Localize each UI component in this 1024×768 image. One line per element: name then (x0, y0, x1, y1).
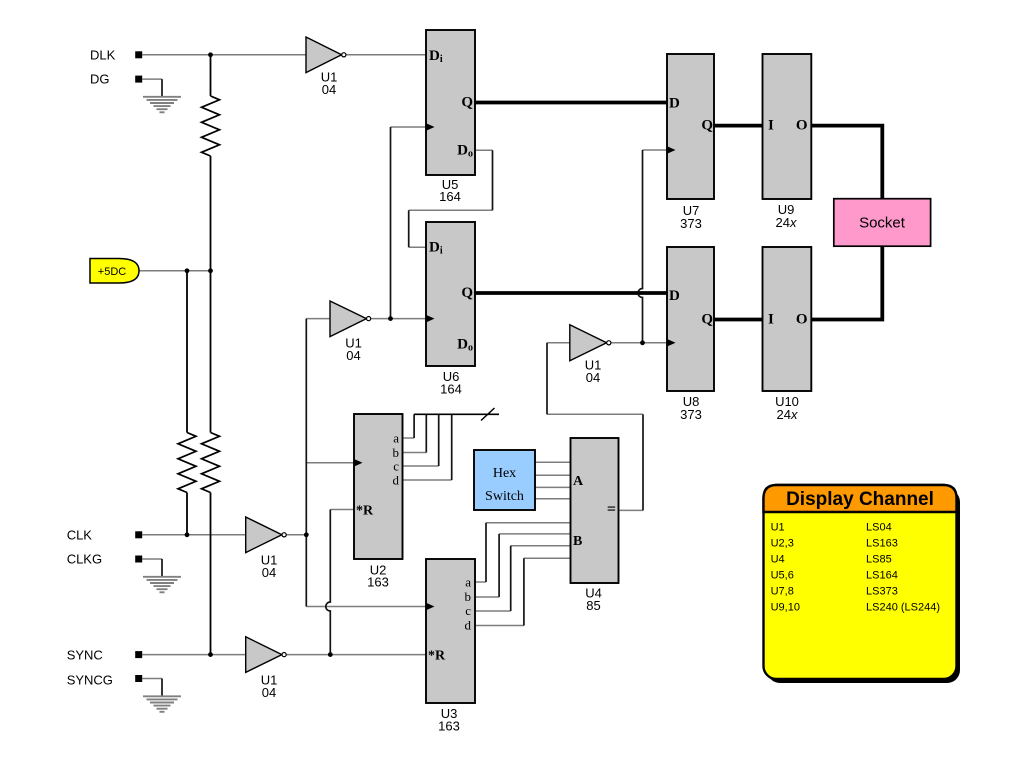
svg-text:163: 163 (367, 575, 389, 590)
wire eq net top (547, 413, 643, 415)
svg-text:I: I (768, 312, 774, 328)
wire U3 clock run (306, 606, 426, 608)
pin DLK (135, 51, 142, 58)
svg-text:24x: 24x (776, 215, 797, 230)
wire inv4 out (287, 534, 307, 536)
pin SYNCG (135, 675, 142, 682)
wire DG ground drop (161, 79, 163, 96)
wire U4 B3 run (511, 545, 571, 547)
wire U4 B3 riser (510, 546, 512, 611)
svg-text:b: b (465, 589, 472, 604)
wire U5 Q to U7 D (475, 101, 667, 105)
svg-text:Display Channel: Display Channel (786, 489, 934, 510)
node +5DC a (185, 268, 190, 273)
svg-text:Socket: Socket (859, 215, 906, 232)
svg-text:164: 164 (440, 382, 462, 397)
svg-text:U2,3: U2,3 (771, 538, 794, 550)
clock arrow of U2 (354, 459, 363, 467)
wire U2 d riser (451, 414, 453, 480)
wire U2 R stub (330, 509, 354, 511)
wire U2 c stub (403, 465, 439, 467)
node SYNC/U2R (328, 652, 333, 657)
svg-text:U5,6: U5,6 (771, 570, 794, 582)
svg-text:373: 373 (680, 407, 702, 422)
clock arrow of U6 (426, 315, 435, 323)
wire U6 Di stub (409, 246, 426, 248)
wire +5DC (139, 270, 211, 272)
svg-text:d: d (393, 473, 400, 488)
wire U7 Q to U9 I (714, 124, 763, 128)
wire feedback right drop (492, 150, 494, 210)
svg-text:LS163: LS163 (866, 538, 898, 550)
wire U9 O to socket (811, 126, 882, 199)
resistor R1 (202, 96, 220, 156)
svg-text:Q: Q (701, 312, 713, 328)
ground SYNCG (143, 696, 181, 712)
svg-text:O: O (796, 118, 808, 134)
inverter U1 gate E (246, 637, 287, 700)
wire SYNCG stub (142, 678, 162, 680)
wire U2 clock branch (306, 462, 354, 464)
svg-text:04: 04 (322, 82, 336, 97)
IC U10 (763, 247, 812, 422)
wire U2 b riser (425, 414, 427, 452)
svg-text:U1: U1 (771, 522, 785, 534)
svg-text:LS164: LS164 (866, 570, 898, 582)
IC U5 (426, 30, 476, 204)
svg-text:B: B (573, 534, 582, 549)
clock arrow of U5 (426, 123, 435, 131)
svg-text:*R: *R (356, 504, 374, 519)
clock arrow of U3 (426, 603, 435, 611)
wire inv3 in stub (547, 342, 570, 344)
svg-text:LS85: LS85 (866, 554, 892, 566)
pin SYNC (135, 651, 142, 658)
svg-text:04: 04 (346, 348, 360, 363)
svg-text:c: c (465, 603, 471, 618)
svg-text:U7,8: U7,8 (771, 586, 794, 598)
svg-text:I: I (768, 118, 774, 134)
wire U4 B1 riser (485, 523, 487, 582)
wire U4 B2 riser (498, 534, 500, 597)
svg-text:DLK: DLK (90, 48, 116, 63)
wire U5 Do stub (475, 149, 493, 151)
wire CLK to inverter (142, 534, 246, 536)
svg-text:04: 04 (262, 685, 276, 700)
wire CLKG ground drop (161, 559, 163, 577)
wire inv1 out to U5 Di (346, 54, 426, 56)
svg-text:85: 85 (586, 598, 600, 613)
wire bus line (414, 413, 499, 415)
inverter U1 gate D (246, 517, 287, 580)
wire socket to U10 O (811, 246, 882, 319)
svg-text:SYNCG: SYNCG (67, 673, 113, 688)
inverter U1 gate C (570, 325, 611, 385)
ground DG (143, 97, 181, 113)
clock arrow of U7 (667, 146, 676, 154)
svg-text:Q: Q (701, 118, 713, 134)
wire SYNC to inverter (142, 654, 246, 656)
svg-text:LS04: LS04 (866, 522, 892, 534)
wire U5 clock riser (390, 127, 392, 319)
wire U2 b stub (403, 452, 427, 454)
node U8 clock (640, 340, 645, 345)
ground CLKG (143, 577, 181, 593)
inverter U1 gate B (330, 301, 371, 363)
svg-text:U4: U4 (771, 554, 785, 566)
pin CLK (135, 531, 142, 538)
svg-text:Q: Q (461, 95, 473, 111)
resistor R3 (202, 433, 220, 493)
wire U7 clock stub (643, 149, 668, 151)
wire DLK to inverter (142, 54, 306, 56)
svg-text:163: 163 (438, 719, 460, 734)
svg-text:04: 04 (586, 370, 600, 385)
wire inv5 out to U3 R (287, 654, 427, 656)
IC U6 (426, 222, 476, 397)
svg-text:DG: DG (90, 72, 110, 87)
IC U8 (667, 247, 715, 422)
wire U4 B2 run (499, 533, 570, 535)
resistor R2 (178, 433, 196, 493)
socket J1 (834, 199, 931, 247)
svg-text:d: d (465, 618, 472, 633)
wire inv3 out to U8 clock (611, 342, 667, 344)
svg-text:164: 164 (439, 189, 461, 204)
wire U2 a stub (403, 437, 415, 439)
svg-text:Q: Q (461, 285, 473, 301)
pin DG (135, 76, 142, 83)
wire CLK net vertical (305, 319, 307, 607)
legend Display Channel (764, 485, 961, 683)
svg-text:Switch: Switch (485, 489, 524, 504)
IC U3 (426, 559, 476, 734)
wire feedback left drop (408, 210, 410, 247)
svg-text:A: A (573, 474, 584, 489)
wire U2 c riser (438, 414, 440, 466)
wire DLK net vertical (210, 55, 212, 96)
wire hex switch to U4 A (535, 462, 571, 499)
node CLK/R2 (185, 532, 190, 537)
svg-text:a: a (465, 575, 471, 590)
svg-text:24x: 24x (777, 407, 798, 422)
svg-text:373: 373 (680, 216, 702, 231)
svg-text:LS373: LS373 (866, 586, 898, 598)
wire U4 B1 run (486, 522, 571, 524)
wire U3 d stub (475, 625, 524, 627)
wire inv2 in stub (306, 318, 330, 320)
wire U5 clock stub (391, 126, 427, 128)
wire U3 b stub (475, 596, 499, 598)
svg-text:O: O (796, 312, 808, 328)
wire eq net right riser (642, 414, 644, 510)
IC U4 (571, 438, 619, 613)
wire SYNCG ground drop (161, 679, 163, 697)
wire U4 eq out stub (619, 509, 644, 511)
wire U4 B4 run (524, 557, 571, 559)
clock arrow of U8 (667, 339, 676, 347)
svg-text:c: c (393, 459, 399, 474)
IC U9 (763, 54, 812, 230)
node +5DC b (208, 268, 213, 273)
inverter U1 gate A (306, 37, 346, 97)
wire U4 B4 riser (523, 558, 525, 625)
svg-text:04: 04 (262, 565, 276, 580)
wire inv2 out to U6 clock (371, 318, 426, 320)
bus slash (481, 408, 495, 421)
svg-text:D: D (669, 288, 680, 304)
pin CLKG (135, 556, 142, 563)
wire U8 Q to U10 I (714, 318, 763, 322)
svg-text:CLKG: CLKG (67, 552, 102, 567)
node CLK out (304, 532, 309, 537)
svg-text:+5DC: +5DC (98, 266, 126, 278)
wire U2 a riser (413, 414, 415, 438)
node U6 clock (388, 316, 393, 321)
wire feedback mid (409, 209, 493, 211)
hex switch S1 (474, 450, 535, 510)
wire U7 clock riser with hop (638, 150, 642, 343)
wire DG stub (142, 78, 162, 80)
wire U2 R drop with hop (326, 510, 330, 655)
IC U7 (667, 54, 715, 231)
wire U2 d stub (403, 479, 452, 481)
svg-text:*R: *R (428, 649, 446, 664)
wire U6 Q to U8 D (475, 291, 667, 295)
wire +5DC left vertical (186, 271, 188, 433)
svg-text:D: D (669, 96, 680, 112)
wire eq net left drop (546, 343, 548, 415)
svg-text:SYNC: SYNC (67, 648, 103, 663)
svg-text:=: = (607, 501, 616, 518)
svg-text:LS240 (LS244): LS240 (LS244) (866, 602, 940, 614)
svg-text:a: a (393, 431, 399, 446)
node SYNC/R3 (208, 652, 213, 657)
svg-text:U9,10: U9,10 (771, 602, 800, 614)
svg-text:Hex: Hex (493, 466, 516, 481)
svg-text:CLK: CLK (67, 528, 93, 543)
IC U2 (354, 414, 403, 590)
wire U3 a stub (475, 581, 486, 583)
wire U3 c stub (475, 610, 511, 612)
wire CLKG stub (142, 558, 162, 560)
power +5DC (90, 259, 139, 284)
node DLK/R1 (208, 52, 213, 57)
